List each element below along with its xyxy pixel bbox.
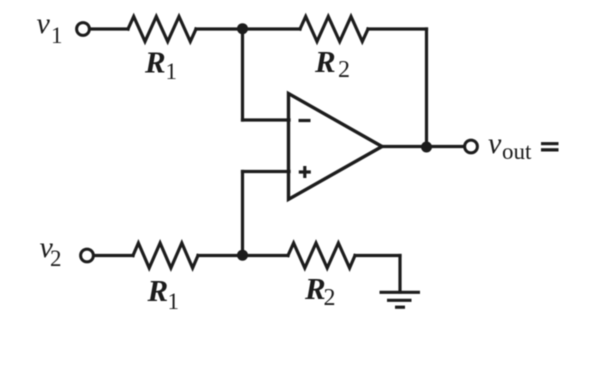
svg-text:v: v [37,7,51,40]
resistor R2 (bottom) [288,243,355,268]
wire: v2 terminal to R1 bottom [94,254,133,257]
terminal vout (open circle) [465,140,478,153]
terminal v1 (open circle) [77,23,90,36]
resistor R1 (bottom) [133,243,198,268]
output node junction dot [421,142,432,153]
equals sign [541,142,559,145]
wire: R2 bottom to ground corner [355,254,400,257]
wire: R1 bottom to node B [198,254,243,257]
svg-text:2: 2 [324,285,336,311]
wire: down to ground [398,256,401,293]
wire: op-amp output to vout terminal [382,145,464,148]
resistor R2 (top, feedback) [300,17,368,42]
terminal v2 (open circle) [81,249,94,262]
wire: v1 terminal to R1 top [90,27,128,30]
svg-text:1: 1 [51,23,63,48]
resistor R1 (top) [128,17,196,42]
svg-text:R: R [304,271,326,306]
wire: feedback vertical down to output node [425,29,428,147]
wire: node A to R2 top [243,27,301,30]
svg-text:R: R [144,45,166,80]
svg-text:R: R [147,273,169,308]
op-amp non-inverting input symbol (plus) [299,166,311,178]
wire: non-inverting input into op-amp [243,170,290,173]
svg-text:v: v [488,127,502,160]
svg-text:2: 2 [338,57,350,83]
ground [380,292,421,307]
op-amp U1 [289,94,383,200]
wire: node B to R2 bottom [243,254,289,257]
node A junction dot [237,23,248,34]
wire: inverting input into op-amp [243,118,290,121]
node B junction dot [237,250,248,261]
svg-text:1: 1 [168,289,180,314]
op-amp inverting input symbol (minus) [299,119,311,122]
wire: R1 top to node A [196,27,243,30]
svg-text:R: R [314,44,336,79]
wire: R2 top to feedback corner [368,27,427,30]
wire: node A down to inverting input [241,29,244,120]
svg-text:1: 1 [166,59,178,84]
svg-text:out: out [502,139,532,164]
svg-text:2: 2 [50,246,62,271]
wire: node B up to non-inverting input [241,172,244,256]
